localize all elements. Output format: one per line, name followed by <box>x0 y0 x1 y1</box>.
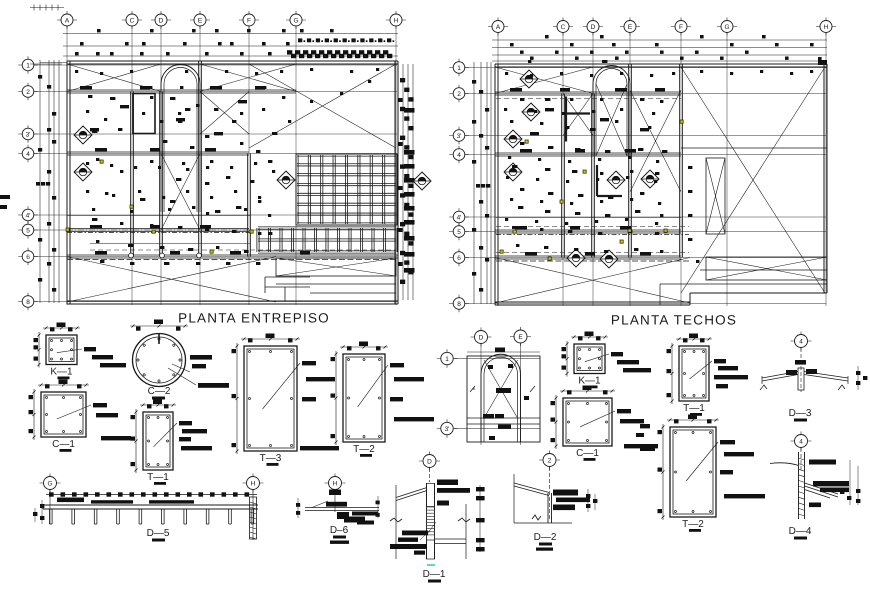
left plan row bubbles 1 2 3' 4 4' 5 6 8 <box>18 64 38 66</box>
detail D-2 roof edge detail <box>539 459 560 461</box>
right plan interior wall column F <box>679 64 681 258</box>
left plan interior wall row 6 <box>67 254 398 256</box>
left plan grid line D <box>160 26 162 305</box>
right plan thick L wall C-D <box>565 97 567 142</box>
D-5 left dimension marks <box>40 504 44 508</box>
right plan grid line 2 <box>465 93 826 95</box>
svg-text:PLANTA ENTREPISO: PLANTA ENTREPISO <box>178 311 330 326</box>
D-2 wall <box>547 493 549 523</box>
right plan bottom right X rect <box>706 257 827 280</box>
right plan grid line 1 <box>465 67 826 69</box>
right plan X brace inside arch <box>596 84 627 156</box>
left plan dash-dot line row 6 <box>67 259 396 261</box>
left plan grid line E <box>199 26 201 305</box>
right plan interior wall row 5 <box>495 229 681 231</box>
arch detail lintel band at 3' <box>467 417 540 419</box>
svg-text:1: 1 <box>26 62 30 69</box>
D-5 joist ribs <box>49 509 51 524</box>
detail D-5 beam elevation <box>40 482 61 484</box>
right plan grid line 4 <box>465 154 826 156</box>
right plan wall lintel bars <box>510 88 522 91</box>
left plan top dimension text marks <box>80 42 84 45</box>
arch detail outer rectangle <box>467 356 540 442</box>
right plan dash-dot line row 4-5 <box>496 234 689 236</box>
D-1 label with teal underline <box>427 564 435 566</box>
svg-text:2: 2 <box>548 457 552 464</box>
right plan grid line A <box>497 33 499 306</box>
svg-text:F: F <box>679 24 683 31</box>
right plan dash-dot line row 6 <box>496 260 689 262</box>
right plan grid line 5 <box>465 231 826 233</box>
D-1 annotation bars upper right <box>437 480 458 486</box>
left plan grid line C <box>131 26 133 305</box>
svg-text:C—1: C—1 <box>576 448 599 459</box>
left plan grid line 3' <box>34 133 397 135</box>
svg-text:D: D <box>159 17 164 24</box>
D-6 side dimension marks <box>296 503 300 507</box>
D-5 right end hatched strip <box>250 497 257 539</box>
D-3 center member <box>798 368 804 390</box>
svg-text:D—3: D—3 <box>789 408 812 419</box>
D-4 annotation bars <box>809 460 836 465</box>
D-1 right ceiling lines <box>435 538 467 540</box>
detail D-6 slab edge detail <box>325 482 346 484</box>
svg-text:F: F <box>247 17 251 24</box>
D-6 stepped black blocks <box>337 512 349 519</box>
svg-text:T—3: T—3 <box>260 453 282 464</box>
svg-text:C: C <box>561 24 566 31</box>
svg-text:PLANTA TECHOS: PLANTA TECHOS <box>611 313 737 328</box>
right plan grid line 8 <box>465 303 826 305</box>
right plan interior wall column E <box>628 64 630 258</box>
left plan column bubbles A C D E F G H <box>57 19 77 21</box>
left plan grid line 4 <box>34 153 397 155</box>
detail D-1 parapet wall section <box>419 460 440 462</box>
left plan interior wall column D <box>159 92 161 257</box>
left plan grid line 2 <box>34 91 397 93</box>
svg-text:E: E <box>628 24 633 31</box>
right plan dash line row 2 lower <box>496 98 681 100</box>
svg-text:T—1: T—1 <box>683 403 705 414</box>
left plan small circles on row 6 <box>129 253 134 258</box>
D-2 break squiggle <box>532 515 541 520</box>
D-1 leader lines <box>428 522 436 533</box>
left plan grid line 6 <box>34 256 397 258</box>
D-1 right dimension column <box>479 485 481 552</box>
svg-text:3': 3' <box>457 133 462 140</box>
detail C-2 circular column section <box>133 334 186 387</box>
right plan extra annotation marks <box>505 72 508 75</box>
svg-text:D: D <box>591 24 596 31</box>
left plan interior wall column C <box>130 92 132 257</box>
detail T-1 left beam section <box>143 412 173 470</box>
left plan grid line A <box>66 26 68 305</box>
svg-text:D: D <box>479 334 484 341</box>
svg-text:6: 6 <box>457 255 461 262</box>
right plan grid line E <box>629 33 631 306</box>
right plan X brace room C-D rows 2-3 <box>563 94 593 136</box>
arch detail grid bubbles D and E <box>471 336 492 338</box>
right plan line row 4 prime <box>496 217 681 219</box>
svg-text:4: 4 <box>457 152 461 159</box>
right plan yellow layer accents <box>525 140 528 143</box>
left plan thick room outline near C-D rows 2-3' <box>133 94 155 134</box>
right plan X brace room E-F <box>630 90 681 192</box>
right plan grid line G <box>726 33 728 306</box>
left plan section diamond markers <box>74 126 92 144</box>
svg-text:2: 2 <box>457 91 461 98</box>
right plan interior wall row 6 <box>495 255 681 257</box>
detail T-3 beam section <box>244 346 297 451</box>
left plan X brace room D-E rows 4-5 <box>161 154 200 231</box>
svg-text:8: 8 <box>457 301 461 308</box>
svg-text:C—1: C—1 <box>52 439 75 450</box>
left plan dense rebar band between G and H <box>298 38 302 42</box>
left plan interior wall row 4 <box>67 151 249 153</box>
left plan right side dense dimension marks <box>402 64 404 300</box>
svg-text:C: C <box>130 17 135 24</box>
svg-text:4': 4' <box>457 214 462 221</box>
D-1 wall ladder hatch <box>427 506 435 508</box>
right plan mid horizontal line in big right area <box>681 147 827 149</box>
svg-text:4: 4 <box>26 151 30 158</box>
D-3 sloping roof lines <box>762 375 798 382</box>
D-4 sloping lines to right <box>805 483 839 494</box>
left plan partial line between rows 5-6 <box>90 243 250 245</box>
arch detail annotation marks <box>488 365 493 369</box>
svg-text:4: 4 <box>799 438 803 445</box>
svg-text:3': 3' <box>26 131 31 138</box>
left plan interior wall row 2 <box>67 89 296 91</box>
right plan left dimension lines <box>473 62 475 304</box>
left plan interior wall column F <box>247 154 249 257</box>
svg-text:3': 3' <box>445 426 450 433</box>
svg-text:4: 4 <box>799 338 803 345</box>
right plan interior wall row 2 <box>495 91 681 93</box>
arch detail break marks <box>470 386 475 392</box>
svg-text:8: 8 <box>26 299 30 306</box>
svg-text:D—5: D—5 <box>147 528 170 539</box>
right plan X brace top band A-D <box>495 67 593 94</box>
left plan wall lintel bars <box>80 86 92 89</box>
detail K-1 left column section <box>46 335 77 365</box>
corner ticks top left <box>30 7 64 9</box>
left plan waffle slab grid upper <box>295 155 297 224</box>
D-1 roof slope lines <box>396 488 427 498</box>
D-3 eave ticks <box>761 376 763 384</box>
right plan grid line D <box>592 33 594 306</box>
D-2 bottom line <box>514 522 572 524</box>
svg-text:4': 4' <box>26 212 31 219</box>
T-2 left leader bars far left <box>640 424 650 428</box>
arch detail X brace <box>484 360 518 418</box>
arch detail arch shape <box>481 354 521 442</box>
D-2 slope lines <box>514 486 549 496</box>
svg-text:H: H <box>824 24 829 31</box>
svg-text:E: E <box>198 17 203 24</box>
right plan grid line F <box>680 33 682 306</box>
right plan column bubbles <box>488 26 508 28</box>
left plan grid line H <box>395 26 397 305</box>
D-1 annotation bars left <box>402 531 428 536</box>
svg-text:A: A <box>65 17 70 24</box>
right plan outer wall <box>495 63 827 65</box>
svg-text:D: D <box>427 458 432 465</box>
left plan left dimension marks <box>38 75 42 79</box>
svg-text:T—2: T—2 <box>353 444 375 455</box>
right plan section diamond markers <box>520 70 538 88</box>
left plan bottom right step lines <box>276 283 396 285</box>
left plan interior wall column E <box>198 61 200 257</box>
svg-text:D—2: D—2 <box>534 532 557 543</box>
detail T-1 right beam section <box>679 346 709 401</box>
D-4 wall with ladder hatch <box>798 452 800 519</box>
right plan bottom band X brace <box>495 258 690 304</box>
right plan grid line 3' <box>465 135 826 137</box>
left margin marks <box>0 195 10 199</box>
right plan grid line 4' <box>465 216 826 218</box>
left plan grid line 8 <box>34 301 397 303</box>
detail C-1 left column section <box>41 392 86 437</box>
D-2 dimension marks <box>586 494 590 498</box>
svg-text:1: 1 <box>457 65 461 72</box>
right plan thick wall stub near D row4 <box>596 165 598 196</box>
left plan grid line 1 <box>34 64 397 66</box>
svg-text:T—2: T—2 <box>682 519 704 530</box>
right plan interior wall column C <box>561 94 563 258</box>
D-4 dimension marks <box>840 490 844 494</box>
right plan top dimension lines <box>492 39 827 41</box>
left plan left dimension lines <box>39 60 41 303</box>
svg-text:D–6: D–6 <box>330 525 349 536</box>
left plan large X brace F-H rows 1-4 <box>249 64 396 148</box>
D-5 top rebar bars <box>57 498 84 503</box>
left plan X brace top band A-D <box>67 64 161 92</box>
detail D-3 ridge detail <box>791 340 812 342</box>
right plan tall narrow braced rect in right area <box>706 158 725 234</box>
left plan outer wall <box>67 60 398 62</box>
left plan scattered annotation marks <box>88 95 92 98</box>
right plan interior wall row 4 <box>495 152 681 154</box>
svg-text:5: 5 <box>26 227 30 234</box>
svg-text:6: 6 <box>26 254 30 261</box>
left plan slab border <box>296 154 397 225</box>
D-4 curved roof line <box>770 463 799 466</box>
left plan bottom step outline <box>265 276 310 278</box>
detail K-1 right column section <box>574 344 605 374</box>
detail C-1 right column section <box>563 398 612 446</box>
right plan grid line 6 <box>465 257 826 259</box>
right plan bottom right wall <box>690 292 827 294</box>
svg-text:H: H <box>333 480 338 487</box>
D-2 annotation bars <box>553 490 578 496</box>
svg-text:K—1: K—1 <box>578 376 601 387</box>
left plan X brace bottom right rows 6 <box>276 258 396 276</box>
right plan scattered annotation marks <box>520 98 524 101</box>
right plan left dimension marks <box>472 80 476 84</box>
left plan dash-dot line row 5 <box>67 232 250 234</box>
right plan grid line C <box>562 33 564 306</box>
svg-text:K—1: K—1 <box>50 367 73 378</box>
D-3 right dimension marks <box>856 371 860 375</box>
svg-text:G: G <box>293 17 298 24</box>
left plan top dimension lines <box>63 33 398 35</box>
right plan huge X brace right area F-H <box>681 67 825 293</box>
svg-text:G: G <box>47 480 52 487</box>
arch detail row bubbles 1 and 3' <box>437 358 457 360</box>
D-1 wall verticals <box>426 483 428 559</box>
left plan line row 4 prime <box>67 215 250 217</box>
left plan X brace room E-F rows 2-3' <box>200 92 249 135</box>
left plan interior wall row 5 <box>67 228 249 230</box>
right plan row bubbles <box>449 67 469 69</box>
right plan top dimension marks <box>510 43 514 46</box>
detail D-4 parapet detail <box>791 440 812 442</box>
D-5 slab lines <box>43 504 258 506</box>
svg-text:H: H <box>394 17 399 24</box>
left plan X brace bottom band rows 6-8 <box>67 257 276 303</box>
left plan arched opening between D and E <box>161 65 200 213</box>
svg-text:1: 1 <box>445 356 449 363</box>
svg-text:2: 2 <box>26 89 30 96</box>
left plan grid line F <box>248 26 250 305</box>
svg-text:E: E <box>518 334 523 341</box>
detail T-2 right beam section <box>670 427 716 517</box>
svg-text:D—1: D—1 <box>423 569 446 580</box>
left plan grid line 4' <box>34 214 397 216</box>
svg-text:T—1: T—1 <box>147 472 169 483</box>
left plan grid line 5 <box>34 229 397 231</box>
left plan X brace top band E-G <box>200 64 296 92</box>
left plan extra annotation marks <box>75 70 78 73</box>
right plan interior wall column D <box>591 94 593 258</box>
right plan arched opening between D and E <box>593 66 630 157</box>
arch detail top dimension <box>467 351 540 353</box>
svg-text:C—2: C—2 <box>148 386 171 397</box>
svg-text:5: 5 <box>457 229 461 236</box>
D-1 break squiggles <box>390 518 402 522</box>
svg-text:D—4: D—4 <box>789 526 812 537</box>
left plan grid line G <box>295 26 297 305</box>
right plan grid line H <box>825 33 827 306</box>
svg-text:H: H <box>251 480 256 487</box>
left plan yellow layer accents <box>100 160 103 163</box>
D-1 left boundary line <box>395 485 397 559</box>
detail T-2 left beam section <box>343 354 385 442</box>
left plan waffle slab grid lower <box>256 228 258 252</box>
svg-text:G: G <box>724 24 729 31</box>
svg-text:A: A <box>496 24 501 31</box>
